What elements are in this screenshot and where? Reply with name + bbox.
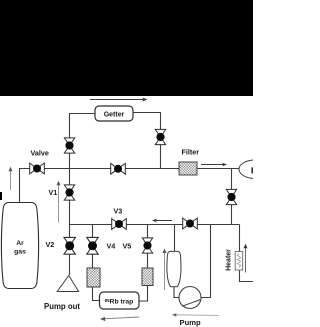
svg-text:Ar: Ar xyxy=(16,240,24,247)
wire pump column xyxy=(201,225,211,298)
flow arrow (top, rightward) xyxy=(90,98,148,102)
flow arrow (bottom right, leftward) xyxy=(172,313,219,316)
valve V1 xyxy=(64,185,74,200)
valve V3 xyxy=(112,219,127,230)
svg-text:Valve: Valve xyxy=(31,149,49,158)
valve (getter left) xyxy=(64,138,74,153)
Rb trap box xyxy=(100,292,140,309)
flow arrow (right column, upward) xyxy=(244,244,248,273)
wire into trap right xyxy=(139,286,148,302)
wire into trap left xyxy=(93,287,100,301)
svg-text:V4: V4 xyxy=(107,242,116,251)
svg-text:85Rb trap: 85Rb trap xyxy=(105,298,134,306)
trap filter left xyxy=(87,268,100,287)
cell text fragment xyxy=(251,167,253,173)
svg-text:V2: V2 xyxy=(46,240,55,249)
valve V4 xyxy=(87,237,98,254)
pump out funnel xyxy=(57,276,78,292)
wire V4 branch xyxy=(92,225,94,269)
wire V1 branch xyxy=(69,169,71,225)
valve on L2 right xyxy=(183,218,198,229)
valve V5 xyxy=(142,238,152,253)
valve (getter right) xyxy=(155,129,165,144)
cell ellipse (cut at edge) xyxy=(239,160,272,179)
svg-text:Pump out: Pump out xyxy=(44,302,80,311)
svg-text:V5: V5 xyxy=(123,242,132,251)
svg-text:V1: V1 xyxy=(49,188,58,197)
heater xyxy=(235,252,243,271)
pump circle xyxy=(179,287,201,309)
wire L2 to tube xyxy=(174,225,176,252)
wire Ar bottle riser xyxy=(19,169,21,203)
black tick left edge xyxy=(0,192,2,200)
flow arrow (on L1, rightward) xyxy=(201,163,227,167)
flow arrow (beside V1, upward) xyxy=(57,181,61,223)
filter xyxy=(179,162,197,175)
flow arrow (left, upward) xyxy=(9,167,13,190)
wire getter left leg xyxy=(70,114,96,169)
wire main line L1 xyxy=(19,168,239,170)
wire tube to pump xyxy=(174,287,179,298)
trap filter right xyxy=(142,268,153,286)
wire getter right leg xyxy=(133,113,161,169)
svg-text:Getter: Getter xyxy=(104,112,125,119)
black header band xyxy=(0,0,253,96)
svg-text:gas: gas xyxy=(14,249,26,256)
valve V2 xyxy=(64,237,75,254)
svg-text:V3: V3 xyxy=(114,207,123,216)
flow arrow (beside tube, upward) xyxy=(163,249,167,291)
wire V5 branch xyxy=(147,225,149,269)
valve on L1 xyxy=(111,163,126,174)
valve (labelled Valve) xyxy=(30,163,45,174)
wire right column to heater xyxy=(240,225,254,282)
Ar gas bottle xyxy=(1,203,38,289)
flow arrow (below trap, leftward) xyxy=(100,317,139,321)
valve V6 xyxy=(226,189,236,204)
wire V2 branch xyxy=(69,225,71,276)
flow arrow (above L2, leftward) xyxy=(152,219,172,223)
svg-text:Heater: Heater xyxy=(226,249,233,271)
wire main line L2 xyxy=(70,224,240,226)
tube (cold trap bottle) xyxy=(167,251,181,286)
wire riser to V6 xyxy=(231,169,233,225)
svg-text:Filter: Filter xyxy=(182,148,200,157)
getter box xyxy=(95,106,133,121)
svg-text:Pump: Pump xyxy=(180,318,201,327)
